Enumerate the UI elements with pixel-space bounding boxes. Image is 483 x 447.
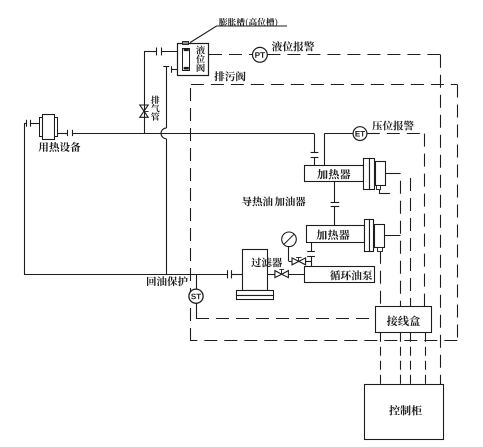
dashed signal tank to PT — [209, 54, 252, 56]
dashed control-circuit enclosure — [191, 85, 458, 342]
heater 2 end flange stack — [365, 220, 374, 252]
label 加热器 heater 1 — [317, 169, 350, 179]
pipe union (flange) below heater 2 — [307, 252, 315, 267]
dashed signal heater leads to junction box x=400.5 — [400, 174, 402, 307]
heater 1 end flange stack — [364, 159, 375, 190]
dashed leads junction box to control cabinet — [381, 333, 426, 385]
wire gauge stem and gauge-valve branch — [289, 247, 312, 262]
label 排污阀 drain valve — [214, 71, 245, 81]
label 膨胀槽(高位槽) expansion tank — [219, 18, 277, 27]
wire ET sensing branch from heater 1 top — [324, 134, 353, 166]
label 回油保护 return oil protection — [147, 276, 188, 286]
wire heater2-to-pump pipe — [311, 243, 313, 252]
heater 2 terminal box — [375, 225, 385, 248]
dashed signal x=410 to junction box — [410, 178, 412, 307]
expansion tank filler cap — [183, 42, 189, 45]
expansion tank body — [178, 44, 209, 76]
pipe union (flange) above heater 1 inlet — [311, 153, 319, 166]
control cabinet 控制柜 — [365, 385, 444, 440]
filter outlet valve (bowtie with stem) — [275, 270, 289, 278]
level gauge sight glass — [183, 49, 190, 71]
heater 1 body 加热器 — [305, 166, 364, 182]
junction box 接线盒 — [376, 307, 432, 333]
label 压位报警 pressure alarm — [372, 121, 414, 131]
dashed signal PT to control cabinet right side — [267, 55, 440, 385]
wire valve to pump inlet — [288, 274, 304, 276]
dashed signal ST to junction box — [196, 318, 376, 320]
pipe union (flange) at heat-user outlet — [68, 130, 73, 136]
wire tank drain line x=166.3 with hop over main pipe — [161, 66, 169, 274]
vent valve on riser — [140, 105, 149, 117]
wire return pipe (left vertical + bottom horizontal to filter) — [24, 123, 227, 274]
heater 1 terminal box — [376, 162, 386, 186]
heat-using equipment 用热设备 — [40, 115, 58, 140]
wire vent riser x=144 — [144, 51, 178, 133]
leader line to tank label — [190, 26, 287, 43]
ST return-oil protection instrument circle — [189, 289, 203, 303]
label 导热油加油器 oil filler — [242, 197, 273, 207]
filter base pedestal — [237, 291, 274, 300]
tank drain stub and flange tick — [172, 66, 178, 73]
wire heater 1 thermostat hook — [379, 189, 390, 193]
wire heater1-to-heater2 pipe — [334, 182, 336, 203]
pipe union (flange) at heat-user inlet — [27, 120, 31, 127]
label 液位报警 level alarm — [272, 41, 314, 51]
wire heat-user right stub — [58, 133, 68, 135]
wire heater 2 thermostat drop — [380, 251, 382, 307]
label 用热设备 — [39, 142, 81, 152]
wire heat-user left stub — [24, 123, 40, 125]
label 循环油泵 — [330, 270, 372, 280]
heater 2 thermostat pocket — [378, 248, 383, 252]
wire heater 2 power lead — [384, 235, 400, 237]
heater 1 thermostat pocket — [377, 186, 381, 190]
wire heater 1 power lead — [385, 173, 400, 175]
label 加热器 heater 2 — [316, 230, 349, 240]
pressure gauge — [282, 232, 297, 247]
label 过滤器 filter — [251, 258, 282, 268]
wire ST tap from return pipe — [196, 274, 198, 319]
wire filter left stub — [232, 274, 243, 276]
heater 2 body 加热器 — [307, 226, 365, 243]
label 接线盒 — [387, 316, 420, 327]
filter body 过滤器 — [243, 250, 268, 291]
wire main supply pipe y=133 to heater corner — [73, 133, 315, 152]
label 液位阀 (level valve) — [196, 46, 205, 73]
label 控制柜 — [389, 405, 422, 415]
wire filter right stub to valve — [267, 274, 275, 276]
pipe union (flange) between heaters — [331, 203, 340, 226]
PT level alarm instrument circle — [253, 47, 268, 62]
pipe union (flange) before filter — [228, 270, 232, 278]
pipe union (flange) at tank inlet — [157, 48, 162, 56]
dashed signal ET to junction box — [367, 134, 425, 307]
gauge isolation valve (bowtie with T-handle) — [292, 257, 306, 265]
circulating pump 循环油泵 — [305, 267, 375, 283]
ET pressure alarm instrument circle — [353, 127, 367, 141]
label 排气管 vent pipe (vertical) — [151, 96, 160, 121]
